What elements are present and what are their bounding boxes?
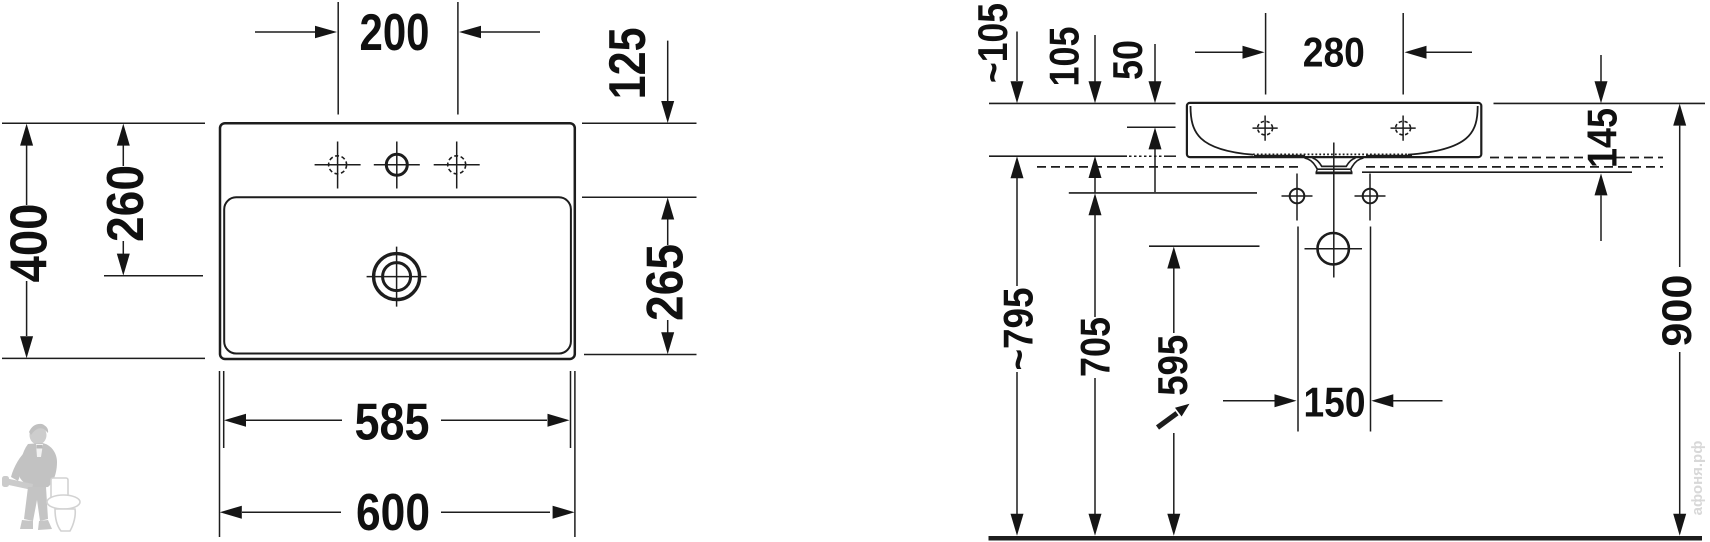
svg-text:265: 265 [637,244,695,321]
svg-text:705: 705 [1072,317,1119,377]
svg-text:150: 150 [1304,378,1366,425]
svg-text:585: 585 [355,393,430,451]
svg-text:145: 145 [1579,108,1626,168]
svg-text:~795: ~795 [995,288,1042,371]
svg-text:260: 260 [97,165,155,242]
svg-text:900: 900 [1653,275,1700,347]
svg-text:50: 50 [1104,40,1151,80]
svg-text:105: 105 [1040,27,1087,87]
svg-text:595: 595 [1149,335,1196,396]
svg-text:афоня.рф: афоня.рф [1689,441,1706,516]
svg-text:280: 280 [1303,28,1365,75]
svg-text:200: 200 [360,4,430,62]
svg-text:~105: ~105 [969,3,1016,83]
svg-text:125: 125 [599,27,657,99]
svg-text:400: 400 [1,204,59,283]
svg-text:600: 600 [356,484,430,542]
